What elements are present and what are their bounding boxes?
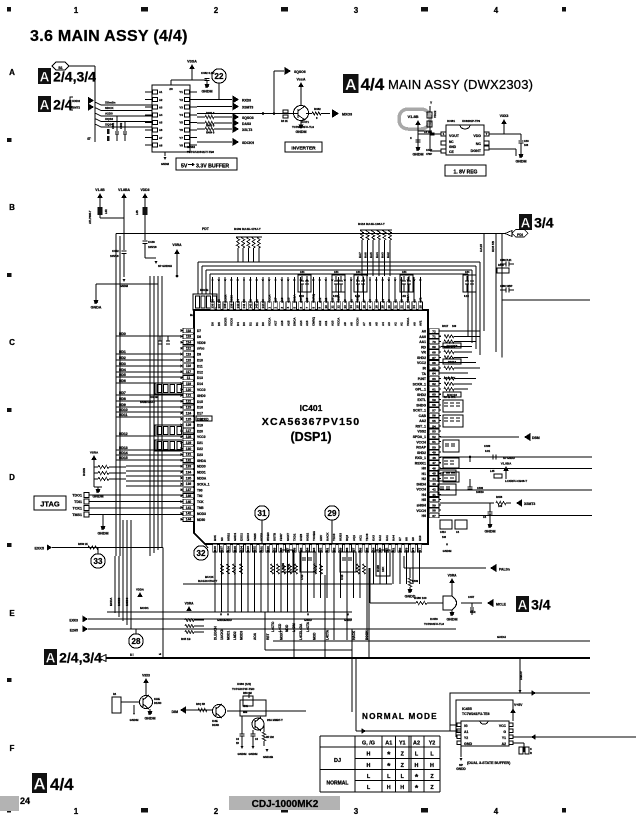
svg-text:A5: A5 [159, 121, 163, 125]
svg-text:C: C [9, 338, 15, 347]
svg-text:61: 61 [432, 387, 436, 391]
svg-text:SHD2: SHD2 [417, 451, 426, 455]
svg-text:101: 101 [259, 546, 263, 551]
svg-text:C44: C44 [356, 271, 361, 274]
svg-text:57: 57 [432, 408, 436, 412]
svg-text:RD5 5B: RD5 5B [491, 240, 495, 252]
bus long vertical x154 [153, 276, 155, 553]
wire bottom pin 100 [267, 544, 269, 556]
svg-text:MXO3: MXO3 [342, 113, 352, 117]
svg-text:E2H5: E2H5 [70, 629, 78, 633]
svg-text:VCC: VCC [499, 724, 507, 728]
svg-text:MOD: MOD [312, 632, 316, 640]
wire comb 19 [339, 556, 341, 598]
resistor R45x row [185, 631, 194, 634]
gate IC456 [427, 602, 443, 604]
svg-text:HA1: HA1 [385, 535, 389, 541]
svg-text:A5: A5 [375, 322, 379, 326]
label INVERTER [285, 142, 322, 152]
svg-text:E: E [158, 653, 162, 655]
wire buffer Y1 to right edge [513, 736, 636, 738]
wire right pin 68 [428, 351, 441, 353]
svg-text:ROAP: ROAP [416, 446, 427, 450]
svg-text:MODA: MODA [109, 598, 113, 606]
sheet reference A 2/4,3/4 [38, 68, 51, 84]
svg-text:SCKR: SCKR [223, 294, 227, 303]
svg-text:GNDM: GNDM [201, 90, 212, 94]
bus line top 4 [210, 273, 468, 275]
svg-text:49: 49 [432, 451, 436, 455]
svg-text:XC6201P-TP9: XC6201P-TP9 [462, 119, 480, 123]
output arrow SQSO3 [214, 116, 232, 118]
svg-text:85: 85 [365, 547, 369, 551]
svg-text:SP GNDD: SP GNDD [503, 456, 515, 460]
wire bottom pin 95 [300, 544, 302, 556]
svg-text:20: 20 [387, 305, 391, 309]
svg-text:100: 100 [452, 325, 457, 328]
svg-text:R416 RA4H-103J-T: R416 RA4H-103J-T [358, 222, 385, 226]
svg-text:A10: A10 [330, 320, 334, 326]
wire left pin 119 [183, 383, 194, 385]
wire bottom pin 101 [260, 544, 262, 556]
svg-text:3/4: 3/4 [531, 596, 551, 612]
svg-text:79: 79 [405, 547, 409, 551]
svg-text:RD: RD [421, 345, 426, 349]
svg-text:SP: SP [96, 490, 100, 494]
capacitor cluster right rows 46 [438, 470, 456, 481]
wire comb 17 [326, 556, 328, 598]
bus line left elbow 4 [209, 274, 211, 294]
ground GNDM V18BA [122, 279, 125, 282]
svg-text:120: 120 [186, 388, 192, 392]
resistor R471 1K base [283, 110, 288, 113]
svg-text:D: D [9, 473, 15, 482]
svg-text:92: 92 [319, 547, 323, 551]
svg-text:19: 19 [381, 305, 385, 309]
svg-text:17: 17 [368, 305, 372, 309]
wire right pin 47 [428, 462, 441, 464]
svg-text:AA1: AA1 [419, 340, 426, 344]
wire right pin 40 [428, 499, 441, 501]
wire top pin 139 [230, 277, 232, 310]
transistor Q460 [140, 696, 153, 709]
svg-text:129: 129 [186, 441, 192, 445]
svg-text:A: A [9, 68, 15, 77]
DSP IC401 outline [194, 310, 428, 544]
wire top pin 18 [375, 277, 377, 310]
svg-text:PALSn: PALSn [499, 568, 510, 572]
svg-text:R489: R489 [412, 580, 419, 583]
svg-text:SCKA_1: SCKA_1 [197, 482, 210, 486]
svg-text:GND1: GND1 [233, 532, 237, 541]
svg-text:V1.8B: V1.8B [407, 114, 418, 119]
svg-text:MCLE: MCLE [496, 603, 507, 607]
wire MOD vertical 2 [122, 520, 124, 621]
svg-text:D17: D17 [197, 412, 203, 416]
svg-text:R58 1M: R58 1M [243, 692, 252, 695]
svg-text:28: 28 [132, 637, 141, 646]
svg-text:133: 133 [186, 465, 192, 469]
label 5V-3V BUFFER [176, 158, 237, 170]
svg-text:VCCH: VCCH [416, 440, 426, 444]
svg-text:XH1: XH1 [243, 705, 248, 708]
wire comb 10 [280, 556, 282, 612]
wire HD4 [116, 371, 183, 373]
svg-text:23: 23 [406, 305, 410, 309]
svg-text:CE: CE [449, 150, 454, 154]
ground GNDM Q460 [149, 709, 151, 712]
svg-text:VCC0: VCC0 [230, 295, 234, 303]
svg-text:VCCA: VCCA [406, 294, 410, 303]
svg-text:H7: H7 [398, 537, 402, 541]
svg-text:60: 60 [432, 393, 436, 397]
svg-text:SP: SP [416, 148, 420, 152]
svg-text:HD3: HD3 [119, 362, 126, 366]
svg-text:HD15: HD15 [119, 456, 128, 460]
label JTAG [34, 496, 66, 510]
bus line right vertical 4 [467, 274, 469, 337]
svg-text:VCC0: VCC0 [197, 435, 206, 439]
svg-text:JTAG: JTAG [40, 500, 60, 509]
svg-text:87: 87 [352, 547, 356, 551]
svg-text:(DUAL 3-STATE BUFFER): (DUAL 3-STATE BUFFER) [467, 761, 511, 765]
wire bottom pin 94 [306, 544, 308, 556]
svg-text:A8: A8 [159, 143, 163, 147]
wire left pin 114 [183, 341, 194, 343]
label 1.8V REG [445, 165, 486, 176]
svg-text:FBR7: FBR7 [279, 533, 283, 541]
wire comb 18 [333, 556, 335, 640]
wire right pin 61 [428, 388, 441, 390]
wire bottom pin 104 [240, 544, 242, 556]
svg-text:V3X3: V3X3 [500, 114, 509, 118]
svg-text:DLEGOH: DLEGOH [213, 626, 217, 640]
svg-text:sHGH: sHGH [417, 504, 427, 508]
wire right pin 71 [428, 335, 441, 337]
capacitor boxed cluster below DSP 1 [281, 550, 293, 572]
resistor R482 [306, 113, 312, 115]
svg-text:LMD2: LMD2 [233, 631, 237, 640]
wire right pin row long [441, 362, 476, 364]
svg-text:D23: D23 [197, 453, 203, 457]
svg-text:SDCKH: SDCKH [242, 141, 255, 145]
ground GNDM gate [451, 610, 453, 613]
capacitor pair C44x [463, 275, 476, 292]
wire left pin 122 [183, 400, 194, 402]
svg-text:TC74HC74F-TBD: TC74HC74F-TBD [232, 687, 254, 691]
svg-text:106: 106 [442, 536, 447, 539]
wire mode row 4 [126, 485, 183, 487]
svg-text:A: A [521, 215, 531, 230]
wire comb 13 [300, 556, 302, 612]
svg-text:D21: D21 [197, 441, 203, 445]
svg-text:VDD9: VDD9 [197, 341, 206, 345]
svg-text:69: 69 [432, 345, 436, 349]
svg-text:HD13: HD13 [119, 446, 128, 450]
svg-text:D9: D9 [197, 353, 201, 357]
svg-text:D13: D13 [197, 376, 203, 380]
svg-text:123: 123 [186, 406, 192, 410]
svg-text:A1: A1 [464, 730, 468, 734]
svg-text:140: 140 [236, 303, 240, 308]
wire bottom pin 80 [399, 544, 401, 556]
wire HD8 [116, 400, 183, 402]
svg-text:VCC2: VCC2 [417, 361, 426, 365]
wire left pin 130 [183, 448, 194, 450]
svg-text:R442 47K: R442 47K [444, 377, 455, 380]
svg-text:102: 102 [253, 546, 257, 551]
svg-text:H: H [367, 763, 371, 769]
svg-text:HRV: HRV [319, 535, 323, 541]
output arrow SQSO6 [285, 67, 292, 75]
wire top pin 20 [388, 277, 390, 310]
wire bottom pin 107 [221, 544, 223, 556]
resistor R59 [263, 732, 266, 741]
svg-text:31: 31 [258, 509, 267, 518]
svg-text:VDDA: VDDA [136, 588, 144, 592]
capacitor C471 [251, 733, 256, 735]
bus line right vertical 3 [471, 270, 473, 343]
svg-text:T1O8: T1O8 [365, 533, 369, 541]
sheet reference A 2/4,3/4 bottom [44, 649, 57, 665]
bus line top 3 [206, 269, 472, 271]
svg-text:1ACK3: 1ACK3 [220, 629, 224, 640]
svg-text:H0: H0 [422, 467, 426, 471]
ground GNDM right of IC481 [520, 152, 522, 155]
svg-text:F: F [10, 744, 15, 753]
svg-text:42: 42 [432, 488, 436, 492]
svg-text:H4: H4 [422, 493, 426, 497]
svg-text:H2: H2 [422, 477, 426, 481]
svg-text:HGB2: HGB2 [306, 532, 310, 541]
svg-text:144: 144 [261, 303, 265, 308]
resistor comb R4 [295, 564, 298, 574]
svg-text:G: G [503, 730, 506, 734]
svg-text:AA0: AA0 [419, 335, 426, 339]
ground GNDM of C482 [206, 81, 208, 85]
capacitor C489 [505, 262, 507, 267]
svg-text:HD0: HD0 [119, 332, 126, 336]
svg-text:138: 138 [186, 494, 192, 498]
svg-text:SHD0: SHD0 [197, 394, 206, 398]
wire HD3 [116, 365, 183, 367]
svg-text:X480 (1/2): X480 (1/2) [237, 682, 251, 686]
wire comb 5 [247, 556, 249, 612]
svg-text:B: B [9, 203, 15, 212]
svg-text:D8: D8 [197, 335, 201, 339]
svg-text:4: 4 [494, 807, 499, 816]
svg-text:SHD2: SHD2 [417, 356, 426, 360]
svg-text:50: 50 [432, 445, 436, 449]
wire top pin 4 [287, 277, 289, 310]
capacitor C470 [240, 733, 245, 735]
svg-text:D1/3D: D1/3D [154, 701, 161, 705]
svg-text:KA3: KA3 [372, 535, 376, 541]
svg-text:SP: SP [408, 590, 412, 594]
svg-text:V1.8BA: V1.8BA [118, 188, 130, 192]
wire comb 2 [227, 556, 229, 612]
svg-text:138: 138 [223, 303, 227, 308]
svg-text:GNDM: GNDM [238, 752, 248, 756]
svg-text:AV1: AV1 [419, 297, 423, 303]
wire top pin 6 [300, 277, 302, 310]
sheet title A 4/4 MAIN ASSY DWX2303 [343, 74, 359, 93]
svg-text:D10: D10 [197, 359, 203, 363]
svg-text:VSSA: VSSA [187, 60, 197, 64]
svg-text:RSXK1: RSXK1 [415, 461, 426, 465]
svg-text:EXK5: EXK5 [34, 547, 44, 551]
svg-text:SGTB: SGTB [273, 533, 277, 541]
wire bottom pin 88 [346, 544, 348, 556]
wire left pin 131 [183, 453, 194, 455]
wire top pin 138 [224, 277, 226, 310]
wire HD11 [116, 416, 183, 418]
capacitor pair C44x [400, 275, 413, 292]
wire right pin 64 [428, 372, 441, 374]
wire MCLE line [369, 568, 371, 603]
svg-text:SCKR_1: SCKR_1 [413, 382, 426, 386]
svg-text:L45: L45 [490, 469, 495, 473]
capacitor C483 [416, 139, 421, 141]
svg-text:2/4,3/4: 2/4,3/4 [59, 649, 102, 665]
svg-text:29: 29 [328, 509, 337, 518]
svg-text:VOUT: VOUT [449, 134, 460, 138]
ground GNDM flipflop 2 [251, 746, 254, 749]
svg-text:C44: C44 [300, 271, 305, 274]
svg-text:VSR5: VSR5 [253, 533, 257, 541]
svg-text:R441 47K: R441 47K [444, 396, 455, 399]
wire top pin 143 [256, 277, 258, 310]
svg-text:TXD1: TXD1 [292, 533, 296, 541]
svg-text:A: A [40, 69, 50, 84]
ground GNDD buffer [460, 746, 462, 757]
wire left pin 118 [183, 330, 194, 332]
bus wire y584 below DSP [183, 583, 392, 585]
svg-text:132: 132 [186, 459, 192, 463]
svg-text:L4CD: L4CD [278, 623, 282, 632]
svg-text:SP: SP [148, 712, 152, 716]
wire top pin 144 [262, 277, 264, 310]
wire top pin 24 [413, 277, 415, 310]
wire comb 31 [419, 556, 421, 584]
svg-text:DJ: DJ [334, 758, 341, 764]
ground below right caps [446, 543, 449, 546]
svg-text:GND2B: GND2B [263, 755, 273, 759]
svg-text:11: 11 [330, 305, 334, 308]
svg-text:4/4: 4/4 [50, 775, 74, 794]
svg-text:MDD: MDD [285, 624, 289, 632]
svg-text:A1: A1 [385, 740, 392, 746]
resistor R458 and XSMT3 arrow [440, 502, 494, 504]
wire exit y468 [440, 468, 592, 470]
svg-text:A15: A15 [286, 297, 290, 303]
svg-text:HACK: HACK [325, 532, 329, 541]
wire VOUT to V1.8B [418, 133, 441, 135]
power arrow V1.8B [415, 120, 421, 125]
svg-text:A6: A6 [368, 322, 372, 326]
wire bottom pin 108 [214, 544, 216, 556]
svg-text:TC7W241FU-TE8: TC7W241FU-TE8 [462, 712, 490, 716]
wire top pin 19 [382, 277, 384, 310]
bus long vertical x150 [149, 276, 151, 556]
wire right pin 58 [428, 404, 441, 406]
wire top pin 5 [293, 277, 295, 310]
svg-text:CMRQ: CMRQ [312, 316, 316, 326]
svg-text:WDB3: WDB3 [266, 532, 270, 541]
wire comb 6 [254, 556, 256, 612]
svg-text:7: 7 [486, 132, 488, 136]
svg-text:99: 99 [273, 547, 277, 551]
resistor comb R4 [227, 564, 230, 574]
wire left pin 135 [183, 477, 194, 479]
svg-text:A: A [33, 775, 45, 794]
wire right pin 57 [428, 409, 441, 411]
svg-text:A1: A1 [400, 299, 404, 303]
svg-text:A0: A0 [412, 322, 416, 326]
wire left pin 112 [183, 347, 194, 349]
svg-text:122: 122 [186, 400, 192, 404]
svg-text:A12: A12 [318, 297, 322, 303]
flipflop body X480 [240, 700, 266, 716]
svg-text:SCKR: SCKR [223, 317, 227, 326]
wire right pin 49 [428, 451, 441, 453]
svg-text:40: 40 [432, 498, 436, 502]
wire right pin 42 [428, 488, 441, 490]
svg-text:C43: C43 [300, 574, 304, 580]
svg-text:70: 70 [432, 340, 436, 344]
svg-text:13: 13 [343, 305, 347, 309]
svg-text:SQSO6: SQSO6 [294, 70, 306, 74]
svg-text:VCCH: VCCH [416, 488, 426, 492]
wire DIM to Q461 [186, 709, 212, 711]
svg-text:A7: A7 [362, 299, 366, 303]
wire bottom pin 85 [366, 544, 368, 556]
capacitor pair C44x [354, 275, 367, 292]
svg-text:125: 125 [186, 417, 192, 421]
resistor right pin row [444, 356, 454, 359]
wire right pin row long [441, 330, 480, 332]
wire right pin 51 [428, 441, 441, 443]
resistor R484 [197, 128, 205, 130]
table grid hline 5 [320, 791, 440, 793]
svg-text:LCXRFU-CB08-T: LCXRFU-CB08-T [505, 479, 527, 483]
svg-text:44: 44 [432, 477, 436, 481]
svg-text:VR: VR [421, 351, 426, 355]
node B1 tag [52, 62, 69, 70]
resistor right pin row [444, 366, 454, 369]
svg-text:A: A [40, 97, 50, 112]
svg-text:A1: A1 [400, 322, 404, 326]
svg-text:NC: NC [476, 142, 482, 146]
svg-text:106: 106 [524, 144, 529, 147]
svg-text:A8: A8 [349, 322, 353, 326]
wire top pin 136 [212, 277, 214, 310]
resistor right pin row [444, 340, 454, 343]
wire exit y490 [440, 489, 592, 491]
svg-text:HD9: HD9 [119, 403, 126, 407]
svg-text:D3: D3 [242, 322, 246, 326]
wire comb 0 [214, 556, 216, 612]
svg-text:C: C [410, 136, 412, 140]
svg-text:VCCA: VCCA [337, 317, 341, 326]
wire left pin 113 [183, 353, 194, 355]
svg-text:P.INT: P.INT [418, 377, 427, 381]
wire bottom pin 82 [386, 544, 388, 556]
svg-text:R4NN: R4NN [82, 468, 86, 476]
svg-text:NDD0: NDD0 [197, 465, 206, 469]
svg-text:HD7: HD7 [119, 391, 126, 395]
wire bottom pin 91 [326, 544, 328, 556]
